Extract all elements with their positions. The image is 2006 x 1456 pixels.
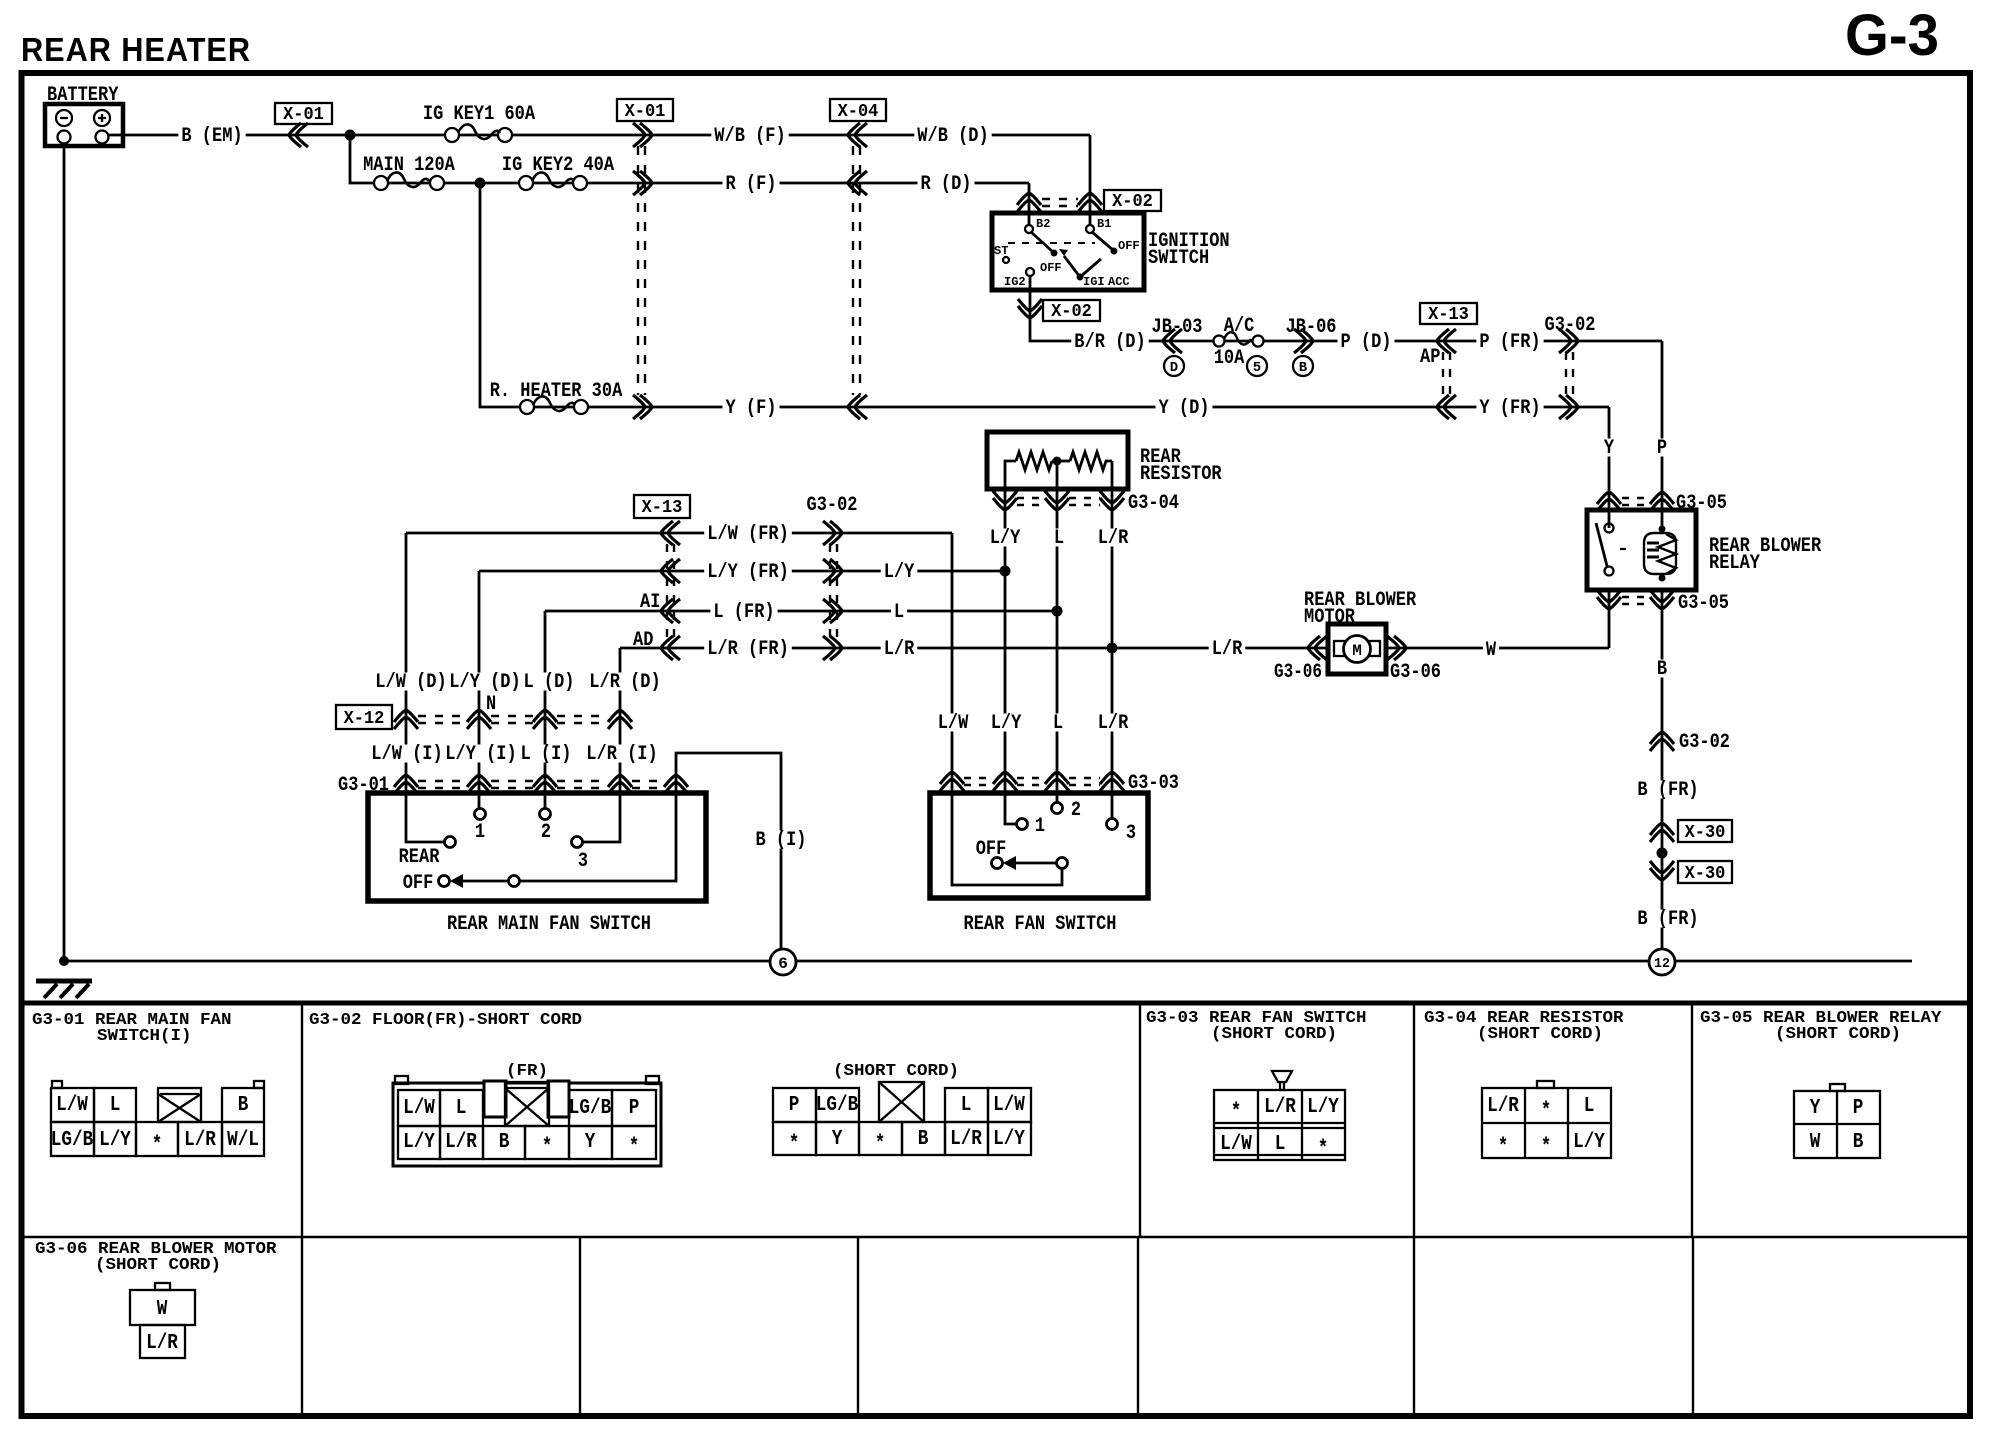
table column dividers row2 — [302, 1237, 1693, 1416]
svg-text:W/L: W/L — [227, 1129, 259, 1152]
svg-text:B: B — [1299, 360, 1308, 376]
svg-text:(FR): (FR) — [506, 1062, 548, 1081]
X-13 dashed link column — [667, 544, 674, 637]
svg-text:G3-02: G3-02 — [1679, 731, 1730, 754]
svg-text:L/Y (FR): L/Y (FR) — [707, 561, 789, 584]
wire L (D) vertical — [544, 611, 547, 809]
svg-text:3: 3 — [578, 850, 588, 873]
chevron X-02 below ignition switch — [1018, 299, 1042, 318]
rear main fan switch S1 — [368, 793, 706, 936]
resistor pin wire L/Y — [1005, 489, 1016, 824]
wire label L/Y (FR) — [704, 561, 792, 584]
svg-text:X-01: X-01 — [625, 102, 666, 122]
svg-text:L/R: L/R — [1264, 1096, 1296, 1119]
svg-text:P: P — [789, 1094, 800, 1117]
moving contact wire — [463, 793, 676, 881]
dashes between G3-05 chevrons bottom — [1622, 597, 1650, 604]
svg-text:P: P — [629, 1097, 640, 1120]
chevron G3-01 on L/Y (I) wire — [467, 775, 491, 794]
wire labels (D) row — [372, 671, 449, 694]
wire label B (FR) lower — [1634, 908, 1701, 931]
svg-text:OFF: OFF — [403, 872, 434, 895]
connector drawing G3-05 — [1794, 1084, 1880, 1158]
relay coil — [1659, 526, 1666, 533]
chevron X-12 on L/W (D) wire — [394, 710, 418, 729]
svg-text:G3-06: G3-06 — [1390, 661, 1441, 684]
chevron X-12 on L/R (D) wire — [608, 710, 632, 729]
contact IG1 with arrow — [1077, 274, 1084, 281]
svg-text:Y: Y — [1604, 437, 1614, 460]
chevron G3-01 on L (I) wire — [533, 775, 557, 794]
wire L/W fan switch vertical — [952, 533, 1062, 885]
svg-text:L/R: L/R — [884, 638, 915, 661]
wire label L/Y (below resistor) — [987, 527, 1024, 550]
chevron X-01 on B(EM) wire — [289, 123, 308, 147]
svg-text:L/W: L/W — [56, 1094, 88, 1117]
svg-text:L/Y: L/Y — [99, 1129, 131, 1152]
connector drawing G3-01 — [51, 1081, 264, 1157]
svg-text:JB-03: JB-03 — [1152, 316, 1203, 339]
svg-text:LG/B: LG/B — [51, 1129, 94, 1152]
svg-text:L/W: L/W — [993, 1094, 1025, 1117]
chevron X-04 on wire 1 — [848, 123, 867, 147]
svg-text:L/Y (D): L/Y (D) — [449, 671, 520, 694]
wire label L/R (below resistor) — [1095, 527, 1132, 550]
svg-text:L (I): L (I) — [521, 743, 572, 766]
wire label L (below resistor) — [1051, 527, 1067, 550]
svg-text:G3-02 FLOOR(FR)-SHORT CORD: G3-02 FLOOR(FR)-SHORT CORD — [309, 1011, 582, 1030]
chevron G3-02 on L/R (FR) wire — [823, 636, 842, 660]
relay switch contacts — [1605, 524, 1614, 533]
svg-text:2: 2 — [1071, 799, 1081, 822]
G3-03 dashes — [964, 778, 1100, 785]
svg-text:B: B — [918, 1128, 929, 1151]
wire P down to relay — [1661, 341, 1664, 529]
svg-text:10A: 10A — [1214, 347, 1245, 370]
terminal B1 — [1086, 225, 1094, 233]
junction node on wire 1 — [345, 130, 356, 141]
G3-01 dashes — [418, 781, 664, 788]
chevron X-01 on wire 1 — [633, 123, 652, 147]
node circle B — [1293, 356, 1313, 376]
svg-text:L/Y: L/Y — [1573, 1131, 1605, 1154]
wire label L/R (mid) — [881, 638, 918, 661]
chevron G3-02 on L/Y (FR) wire — [823, 559, 842, 583]
wire B(I) from main fan switch to ground node 6 — [676, 753, 781, 949]
fuse R. HEATER 30A — [487, 380, 626, 414]
chevron G3-05 bottom on Y-switch pin — [1597, 590, 1621, 609]
wire label W (motor to relay) — [1483, 639, 1499, 662]
X-13 dashed link between P and Y rows — [1443, 352, 1450, 396]
svg-text:L/R: L/R — [1098, 527, 1129, 550]
connector label X-13 (row area) — [634, 495, 690, 518]
svg-text:B: B — [1853, 1131, 1864, 1154]
svg-text:L/W: L/W — [1220, 1133, 1252, 1156]
svg-text:L/W (I): L/W (I) — [371, 743, 442, 766]
wire 1: battery B(EM) to ignition switch B1 — [109, 135, 1090, 225]
wire row L/W (FR) — [406, 532, 952, 535]
svg-text:B (EM): B (EM) — [181, 125, 242, 148]
junction node L/R row — [1107, 643, 1118, 654]
wire labels (I) row — [368, 743, 445, 766]
rear resistor R rear resistor — [987, 432, 1222, 489]
wire row L/R (FR) to motor and relay — [620, 647, 1609, 650]
wire label L (mid) — [891, 601, 907, 624]
wire L/W (D) vertical — [406, 533, 445, 842]
svg-text:AP: AP — [1420, 346, 1440, 369]
svg-text:L/W (D): L/W (D) — [375, 671, 446, 694]
ground symbol — [36, 981, 92, 998]
chevron X-04 on wire 3 — [848, 395, 867, 419]
svg-text:L: L — [1584, 1095, 1595, 1118]
table row divider — [21, 1236, 1970, 1238]
svg-text:*: * — [789, 1133, 800, 1156]
ignition switch U ignition — [992, 190, 1230, 290]
svg-text:IGI: IGI — [1083, 275, 1105, 289]
wire label W/B (F) — [711, 125, 788, 148]
svg-text:L/W (FR): L/W (FR) — [707, 523, 789, 546]
connector drawing G3-02 (FR) — [393, 1062, 661, 1166]
wire L/R (D) vertical — [582, 648, 620, 842]
fuse A/C 10A — [1214, 315, 1264, 370]
svg-text:LG/B: LG/B — [816, 1094, 859, 1117]
svg-text:B2: B2 — [1036, 217, 1050, 231]
wire label W/B (D) — [914, 125, 991, 148]
svg-text:OFF: OFF — [1118, 239, 1140, 253]
rear fan switch S2 — [930, 793, 1148, 936]
chevron X-04 on wire 2 — [848, 171, 867, 195]
terminal 3 — [1107, 819, 1118, 830]
svg-text:N: N — [486, 693, 496, 716]
svg-text:1: 1 — [1035, 815, 1045, 838]
wire label B/R (D) — [1071, 331, 1148, 354]
svg-text:ACC: ACC — [1108, 275, 1130, 289]
svg-text:AD: AD — [633, 629, 653, 652]
svg-text:L/R: L/R — [146, 1332, 178, 1355]
svg-text:*: * — [152, 1134, 163, 1157]
wire labels above G3-03 — [935, 712, 972, 735]
ground junction node — [59, 956, 69, 966]
svg-text:G3-06: G3-06 — [1274, 661, 1322, 684]
svg-text:L/R: L/R — [950, 1128, 982, 1151]
svg-text:OFF: OFF — [976, 838, 1007, 861]
G3-02 dashed link between P and Y rows — [1566, 352, 1573, 396]
chevron X-12 on L (D) wire — [533, 710, 557, 729]
wire label P — [1654, 437, 1670, 460]
mechanical coupling dashed — [1008, 242, 1095, 244]
svg-text:W: W — [1486, 639, 1496, 662]
junction node L/Y row — [1000, 566, 1011, 577]
fuse IG KEY1 60A — [420, 103, 538, 142]
terminal 1 — [1017, 819, 1028, 830]
wire 2: MAIN/IG KEY2 fuse row to ignition switch B2 — [350, 135, 1029, 225]
svg-text:*: * — [1498, 1136, 1509, 1159]
svg-text:AI: AI — [640, 591, 660, 614]
X-12 dashes — [418, 716, 608, 723]
wire label Y (F) — [723, 397, 780, 420]
svg-text:IG KEY1 60A: IG KEY1 60A — [423, 103, 535, 126]
connector label X-04 — [830, 99, 886, 122]
wire label L/R (to motor) — [1209, 638, 1246, 661]
wire label B — [1654, 658, 1670, 681]
ground bus wire — [64, 960, 1912, 963]
svg-text:G3-04: G3-04 — [1128, 492, 1179, 515]
svg-text:G3-02: G3-02 — [807, 494, 858, 517]
relay K rear blower relay — [1587, 510, 1821, 590]
chevron G3-04 on L/R pin — [1100, 491, 1124, 510]
svg-text:B (FR): B (FR) — [1637, 908, 1698, 931]
svg-text:L/R: L/R — [1487, 1095, 1519, 1118]
connector label X-01 (battery row) — [275, 103, 332, 125]
svg-text:B: B — [1657, 658, 1667, 681]
svg-text:B/R (D): B/R (D) — [1074, 331, 1145, 354]
wire label R (F) — [723, 173, 780, 196]
connector label X-01 (fuse row top) — [617, 99, 673, 122]
svg-text:OFF: OFF — [1040, 261, 1062, 275]
ground node 6 — [770, 949, 796, 975]
chevron G3-03 on L/Y wire — [993, 772, 1017, 791]
svg-text:RELAY: RELAY — [1709, 552, 1760, 575]
wire label P (FR) — [1476, 331, 1543, 354]
svg-text:(SHORT CORD): (SHORT CORD) — [1775, 1025, 1901, 1044]
chevron X-13 on L (FR) wire — [661, 599, 680, 623]
svg-text:L/Y: L/Y — [991, 712, 1022, 735]
svg-text:W: W — [1810, 1131, 1821, 1154]
chevron G3-02 on B wire — [1650, 732, 1674, 751]
wire row L (FR) — [545, 610, 1057, 613]
svg-text:2: 2 — [541, 821, 551, 844]
junction node L row — [1052, 606, 1063, 617]
dashes between X-02 chevrons — [1042, 199, 1078, 206]
wire B: relay coil pin down to ground node 12 — [1661, 590, 1664, 949]
svg-text:*: * — [1541, 1136, 1552, 1159]
switch arm from B2 — [1031, 232, 1053, 252]
svg-text:*: * — [1318, 1138, 1329, 1161]
wire IG2 to B/R (D) row — [1030, 276, 1662, 341]
svg-text:L: L — [110, 1094, 121, 1117]
svg-text:L/R: L/R — [1212, 638, 1243, 661]
wire label R (D) — [918, 173, 975, 196]
wire row L/Y (FR) — [479, 570, 1005, 573]
svg-text:SWITCH: SWITCH — [1148, 247, 1209, 270]
dashes between G3-04 chevrons — [1017, 498, 1100, 505]
fuse IG KEY2 40A — [499, 154, 617, 190]
svg-text:3: 3 — [1126, 822, 1136, 845]
resistor pin wire L — [1056, 489, 1059, 802]
chevron G3-01 on L/R (I) wire — [608, 775, 632, 794]
svg-text:Y: Y — [1810, 1097, 1821, 1120]
wire 3: R.HEATER 30A row, Y(F)/Y(D)/Y(FR) to relay — [480, 183, 1609, 407]
table top border — [21, 1001, 1970, 1006]
svg-text:X-01: X-01 — [283, 105, 324, 125]
terminal REAR — [445, 837, 456, 848]
svg-text:Y (FR): Y (FR) — [1479, 397, 1540, 420]
svg-text:IG KEY2 40A: IG KEY2 40A — [502, 154, 614, 177]
node circle 5 — [1247, 356, 1267, 376]
chevron X-13 on wire 3 — [1437, 395, 1456, 419]
svg-text:P: P — [1853, 1097, 1864, 1120]
svg-text:JB-06: JB-06 — [1286, 316, 1337, 339]
svg-text:Y: Y — [832, 1128, 843, 1151]
chevron X-02 on B2 wire — [1017, 193, 1041, 212]
junction node on B wire — [1657, 848, 1668, 859]
svg-text:L/Y: L/Y — [993, 1128, 1025, 1151]
wire label B (FR) upper — [1634, 779, 1701, 802]
svg-text:5: 5 — [1253, 360, 1261, 376]
chevron G3-02 on P wire — [1559, 329, 1578, 353]
resistor pin wire L/R — [1111, 489, 1114, 818]
wire label B (EM) — [178, 125, 245, 148]
svg-text:L/R: L/R — [445, 1131, 477, 1154]
G3-02 dashed link column — [830, 544, 837, 637]
svg-text:(SHORT CORD): (SHORT CORD) — [1477, 1025, 1603, 1044]
svg-text:L/Y (I): L/Y (I) — [445, 743, 516, 766]
node circle D — [1164, 356, 1184, 376]
rear blower motor M — [1274, 589, 1441, 684]
svg-text:Y (D): Y (D) — [1159, 397, 1210, 420]
svg-text:W/B (F): W/B (F) — [714, 125, 785, 148]
chevron G3-04 on L pin — [1045, 491, 1069, 510]
svg-text:W/B (D): W/B (D) — [917, 125, 988, 148]
dashes between G3-05 chevrons top — [1622, 498, 1650, 505]
svg-text:X-30: X-30 — [1685, 864, 1726, 884]
svg-text:REAR MAIN FAN SWITCH: REAR MAIN FAN SWITCH — [447, 913, 651, 936]
svg-text:X-30: X-30 — [1685, 823, 1726, 843]
svg-text:B (FR): B (FR) — [1637, 779, 1698, 802]
chevron G3-02 on L (FR) wire — [823, 599, 842, 623]
svg-text:L/R (I): L/R (I) — [586, 743, 657, 766]
svg-text:(SHORT CORD): (SHORT CORD) — [833, 1062, 959, 1081]
wire label Y (FR) — [1476, 397, 1543, 420]
svg-text:L/R (D): L/R (D) — [589, 671, 660, 694]
svg-text:IG2: IG2 — [1004, 275, 1026, 289]
chevron G3-01 on L/W (I) wire — [394, 775, 418, 794]
svg-text:L: L — [1275, 1133, 1286, 1156]
connector drawing G3-04 — [1482, 1081, 1611, 1159]
svg-text:REAR: REAR — [399, 846, 440, 869]
battery — [45, 84, 123, 146]
chevron X-13 on P wire — [1437, 329, 1456, 353]
svg-text:LG/B: LG/B — [569, 1097, 612, 1120]
svg-text:L: L — [1054, 527, 1064, 550]
svg-text:Y: Y — [585, 1131, 596, 1154]
svg-text:X-13: X-13 — [1428, 305, 1469, 325]
wire label B (I) — [753, 829, 810, 852]
svg-text:*: * — [1541, 1100, 1552, 1123]
svg-text:D: D — [1170, 360, 1178, 376]
table column dividers row1 — [302, 1003, 1692, 1237]
terminal 2 — [1052, 803, 1063, 814]
chevron X-13 on L/R (FR) wire — [661, 636, 680, 660]
connector label X-13 — [1420, 303, 1477, 325]
svg-text:(SHORT CORD): (SHORT CORD) — [95, 1256, 221, 1275]
wire label L/R (FR) — [704, 638, 792, 661]
wire battery negative to ground bus — [63, 143, 66, 961]
svg-text:*: * — [542, 1136, 553, 1159]
svg-text:L/W: L/W — [403, 1097, 435, 1120]
svg-text:P (FR): P (FR) — [1479, 331, 1540, 354]
terminal 3 — [572, 837, 583, 848]
wire label Y — [1601, 437, 1617, 460]
svg-text:X-12: X-12 — [344, 709, 385, 729]
switch arm from B1 — [1092, 232, 1113, 250]
svg-text:X-13: X-13 — [642, 498, 683, 518]
svg-text:X-02: X-02 — [1051, 302, 1092, 322]
svg-text:M: M — [1352, 642, 1362, 660]
svg-text:L/R (FR): L/R (FR) — [707, 638, 789, 661]
connector label X-30 lower — [1678, 861, 1732, 884]
svg-text:R (D): R (D) — [921, 173, 972, 196]
chevron X-30 lower — [1650, 861, 1674, 880]
svg-text:L/Y: L/Y — [1307, 1096, 1339, 1119]
svg-text:X-04: X-04 — [838, 102, 879, 122]
chevron X-02 on B1 wire — [1078, 193, 1102, 212]
svg-text:L: L — [961, 1094, 972, 1117]
connector drawing G3-06 — [130, 1283, 195, 1358]
connector label X-12 — [336, 705, 392, 729]
svg-text:*: * — [629, 1136, 640, 1159]
svg-text:L/Y: L/Y — [403, 1131, 435, 1154]
svg-text:R. HEATER 30A: R. HEATER 30A — [490, 380, 623, 403]
connector drawing G3-03 — [1214, 1071, 1345, 1161]
svg-text:L/W: L/W — [938, 712, 969, 735]
svg-text:REAR HEATER: REAR HEATER — [21, 31, 251, 68]
chevron G3-03 on L/R wire — [1100, 772, 1124, 791]
chevron G3-05 top on P — [1650, 492, 1674, 511]
chevron G3-01 on B (I) wire — [664, 775, 688, 794]
svg-text:B: B — [499, 1131, 510, 1154]
svg-text:Y (F): Y (F) — [726, 397, 777, 420]
svg-text:P (D): P (D) — [1341, 331, 1392, 354]
ignition switch body — [992, 213, 1144, 290]
chevron X-13 on L/Y (FR) wire — [661, 559, 680, 583]
chevron X-01 on wire 3 — [633, 395, 652, 419]
chevron X-01 on wire 2 — [633, 171, 652, 195]
svg-text:L/R: L/R — [1098, 712, 1129, 735]
wire label Y (D) — [1156, 397, 1213, 420]
chevron G3-03 on L wire — [1045, 772, 1069, 791]
ground node 12 — [1649, 949, 1675, 975]
svg-text:L (D): L (D) — [524, 671, 575, 694]
chevron G3-05 top on Y — [1597, 492, 1621, 511]
svg-text:L/Y: L/Y — [884, 561, 915, 584]
terminal B2 — [1025, 225, 1033, 233]
terminal 2 — [540, 809, 551, 820]
svg-text:P: P — [1657, 437, 1667, 460]
wire label P (D) — [1338, 331, 1395, 354]
svg-text:L: L — [1053, 712, 1063, 735]
wire label L (FR) — [710, 601, 777, 624]
svg-text:R (F): R (F) — [726, 173, 777, 196]
chevron G3-05 bottom on P-coil pin — [1650, 590, 1674, 609]
chevron G3-04 on L/Y pin — [993, 491, 1017, 510]
fuse MAIN 120A — [360, 154, 458, 190]
svg-text:L: L — [456, 1097, 467, 1120]
X-04 harness dashed line — [853, 146, 860, 395]
svg-text:*: * — [875, 1133, 886, 1156]
svg-text:6: 6 — [778, 955, 788, 973]
svg-text:B (I): B (I) — [756, 829, 807, 852]
terminal IG2 — [1026, 268, 1034, 276]
wire label L/Y (mid) — [881, 561, 918, 584]
connector drawing G3-02 (SHORT CORD) — [773, 1062, 1031, 1156]
connector label X-02 (top) — [1104, 190, 1161, 211]
svg-text:G-3: G-3 — [1845, 3, 1939, 68]
terminal 1 — [475, 809, 486, 820]
svg-text:X-02: X-02 — [1112, 192, 1153, 212]
svg-text:L: L — [894, 601, 904, 624]
chevron G3-03 on L/W wire — [940, 772, 964, 791]
